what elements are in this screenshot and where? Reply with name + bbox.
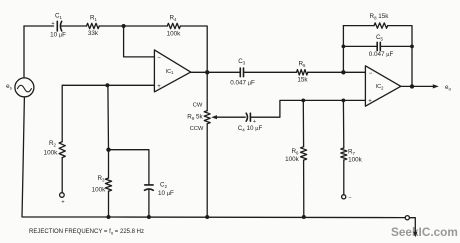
- svg-text:100k: 100k: [92, 186, 107, 193]
- wire R9 to bus: [206, 124, 208, 217]
- IC2 output node dot: [410, 84, 414, 88]
- wire top rail from left corner to C1: [24, 25, 54, 27]
- svg-text:C4 10 µF: C4 10 µF: [238, 125, 263, 133]
- svg-text:R9 5k: R9 5k: [187, 113, 203, 121]
- resistor R5 15k: [297, 70, 308, 75]
- wire non-inverting net: corner to junction to IC1: [63, 84, 154, 86]
- svg-text:−: −: [157, 55, 161, 61]
- wire C5 loop left: [343, 45, 376, 47]
- svg-text:IC2: IC2: [376, 84, 385, 90]
- resistor R1 33k: [87, 23, 100, 28]
- wire node A to R4: [124, 25, 168, 27]
- wire R7 to terminal: [343, 160, 345, 195]
- capacitor C1: [57, 21, 61, 31]
- wiper arrow of R9: [216, 116, 245, 118]
- wire R8 loop top right: [388, 26, 412, 87]
- ground bus: [107, 216, 405, 219]
- wire R8 loop top left: [343, 25, 374, 27]
- svg-text:0.047 µF: 0.047 µF: [230, 79, 255, 86]
- resistor R3 100k: [105, 178, 111, 191]
- wire C1 to R1: [61, 25, 86, 27]
- svg-text:+: +: [51, 21, 54, 27]
- resistor R4 100k: [167, 23, 180, 28]
- wire C3 to R5: [244, 71, 297, 73]
- svg-text:+: +: [157, 84, 161, 90]
- potentiometer R9 5k: [204, 111, 210, 124]
- wire R5 to IC2 inverting input: [308, 71, 366, 73]
- R7 top dot: [342, 99, 346, 103]
- bus dot R6: [302, 215, 306, 219]
- feedback left vertical up from IC2 input node: [342, 26, 344, 73]
- wire R1 to node A: [99, 25, 123, 27]
- svg-text:CW: CW: [193, 103, 203, 109]
- R6 top dot: [301, 99, 305, 103]
- capacitor C4: [246, 113, 250, 121]
- wire R3 to bus: [108, 191, 110, 217]
- wire R6 to bus: [303, 160, 305, 217]
- svg-text:SeekIC.com: SeekIC.com: [391, 225, 458, 239]
- wire R2 to terminal: [61, 158, 63, 193]
- node A dot: [122, 24, 126, 28]
- wire left rail top: [23, 26, 25, 78]
- wire IC1 output to C3: [191, 71, 240, 73]
- svg-text:CCW: CCW: [190, 126, 204, 132]
- bus dot C2: [147, 215, 151, 219]
- resistor R6 100k: [301, 147, 307, 160]
- op-amp IC1: [154, 50, 190, 92]
- svg-text:100k: 100k: [348, 156, 363, 163]
- wire C4 to corner up to upper net: [251, 100, 366, 117]
- capacitor C3: [240, 68, 243, 77]
- bus dot R3: [107, 215, 111, 219]
- resistor R8 15k: [374, 23, 388, 28]
- IC1 output node dot: [205, 70, 209, 74]
- resistor R2 100k: [59, 142, 65, 158]
- svg-text:R8 15k: R8 15k: [370, 13, 390, 21]
- resistor R7 100k: [341, 148, 347, 160]
- svg-text:10 µF: 10 µF: [50, 32, 66, 39]
- svg-text:+: +: [368, 99, 372, 105]
- svg-text:−: −: [369, 71, 373, 77]
- terminal circle under R7: [342, 195, 346, 199]
- wire R2 top lead: [62, 85, 63, 141]
- wire bus right circle to down arrow: [405, 216, 409, 220]
- wire pot branch: output node down to R9: [206, 72, 208, 110]
- non-inverting net dot: [105, 83, 109, 87]
- wire lower node to C2 branch: [109, 150, 149, 185]
- svg-text:100k: 100k: [167, 31, 182, 38]
- wire C5 loop right: [381, 45, 412, 47]
- op-amp IC2: [365, 66, 400, 106]
- svg-text:100k: 100k: [285, 156, 300, 163]
- svg-text:100k: 100k: [44, 149, 59, 156]
- svg-text:0.047 µF: 0.047 µF: [369, 51, 394, 58]
- C5 left dot: [342, 45, 346, 49]
- wire IC2 output to arrow: [401, 85, 437, 87]
- wire R4 to feedback corner and down to output node: [180, 26, 207, 72]
- capacitor C2: [145, 185, 154, 190]
- wire node A down to IC1 inverting input: [124, 26, 155, 57]
- wire junction down to lower node: [107, 85, 110, 149]
- svg-text:+: +: [61, 199, 64, 205]
- wire lower node down to R3: [108, 150, 110, 178]
- source e_s: [15, 78, 34, 97]
- IC2 input node dot: [341, 70, 345, 74]
- terminal circle under R2: [60, 193, 65, 198]
- svg-text:10 µF: 10 µF: [158, 190, 174, 197]
- wire R7 branch down: [342, 100, 344, 148]
- wire R6 branch down: [302, 100, 304, 146]
- C5 right dot: [410, 45, 414, 49]
- svg-text:15k: 15k: [297, 77, 308, 84]
- svg-text:33k: 33k: [88, 30, 99, 37]
- svg-text:−: −: [348, 196, 351, 202]
- svg-text:+: +: [253, 119, 256, 125]
- capacitor C5: [377, 42, 380, 50]
- wire C2 to bus: [148, 190, 150, 217]
- lower node dot: [106, 148, 110, 152]
- svg-text:REJECTION FREQUENCY = fo = 225: REJECTION FREQUENCY = fo = 225.8 Hz: [29, 229, 144, 235]
- wire left rail bottom to ground bus: [22, 97, 107, 217]
- bus dot R9: [205, 215, 209, 219]
- svg-text:IC1: IC1: [166, 69, 175, 75]
